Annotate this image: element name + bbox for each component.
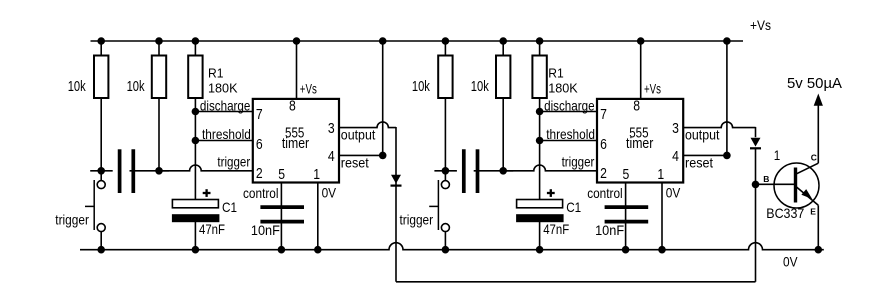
svg-text:2: 2 <box>600 166 607 182</box>
svg-text:reset: reset <box>341 155 369 171</box>
svg-text:7: 7 <box>256 107 263 123</box>
svg-text:10k: 10k <box>68 78 86 95</box>
svg-text:1: 1 <box>657 167 664 183</box>
svg-text:5: 5 <box>623 167 630 183</box>
svg-text:+Vs: +Vs <box>644 81 661 97</box>
svg-text:10k: 10k <box>127 78 145 95</box>
svg-text:timer: timer <box>626 136 653 152</box>
svg-text:0V: 0V <box>783 253 798 269</box>
svg-text:0V: 0V <box>666 185 681 201</box>
svg-text:trigger: trigger <box>400 211 434 227</box>
svg-text:BC337: BC337 <box>766 205 804 221</box>
svg-text:threshold: threshold <box>546 126 595 142</box>
svg-text:6: 6 <box>600 137 607 153</box>
svg-text:4: 4 <box>672 149 679 165</box>
svg-text:47nF: 47nF <box>543 221 569 237</box>
svg-text:control: control <box>243 185 279 201</box>
svg-text:3: 3 <box>672 121 679 137</box>
svg-text:discharge: discharge <box>200 98 251 114</box>
svg-text:C: C <box>811 153 817 163</box>
svg-text:B: B <box>763 174 769 184</box>
svg-text:180K: 180K <box>548 81 578 96</box>
svg-text:10k: 10k <box>471 78 489 95</box>
svg-text:1: 1 <box>774 147 781 163</box>
svg-text:2: 2 <box>256 166 263 182</box>
svg-text:8: 8 <box>633 98 640 114</box>
svg-text:output: output <box>341 127 376 143</box>
svg-text:trigger: trigger <box>55 211 89 227</box>
svg-text:3: 3 <box>328 121 335 137</box>
svg-text:E: E <box>810 207 816 217</box>
svg-text:8: 8 <box>289 98 296 114</box>
svg-text:+Vs: +Vs <box>300 81 317 97</box>
svg-text:reset: reset <box>685 155 713 171</box>
svg-text:6: 6 <box>256 137 263 153</box>
svg-text:10nF: 10nF <box>595 222 624 238</box>
svg-text:1: 1 <box>313 167 320 183</box>
svg-text:0V: 0V <box>322 185 337 201</box>
svg-text:trigger: trigger <box>562 154 595 170</box>
svg-text:180K: 180K <box>208 81 238 96</box>
svg-text:control: control <box>587 185 623 201</box>
svg-text:5: 5 <box>278 167 285 183</box>
svg-text:7: 7 <box>600 107 607 123</box>
svg-text:R1: R1 <box>208 66 224 81</box>
svg-text:5v 50µA: 5v 50µA <box>787 75 842 92</box>
svg-text:timer: timer <box>282 136 309 152</box>
svg-text:10nF: 10nF <box>251 222 280 238</box>
svg-text:output: output <box>685 127 720 143</box>
svg-text:+Vs: +Vs <box>750 17 771 33</box>
svg-text:47nF: 47nF <box>199 221 225 237</box>
svg-text:trigger: trigger <box>217 154 250 170</box>
svg-text:threshold: threshold <box>202 126 251 142</box>
svg-text:10k: 10k <box>412 78 430 95</box>
svg-text:discharge: discharge <box>544 98 595 114</box>
svg-text:R1: R1 <box>548 66 564 81</box>
svg-text:C1: C1 <box>566 199 581 215</box>
svg-text:C1: C1 <box>222 199 237 215</box>
svg-text:4: 4 <box>328 149 335 165</box>
